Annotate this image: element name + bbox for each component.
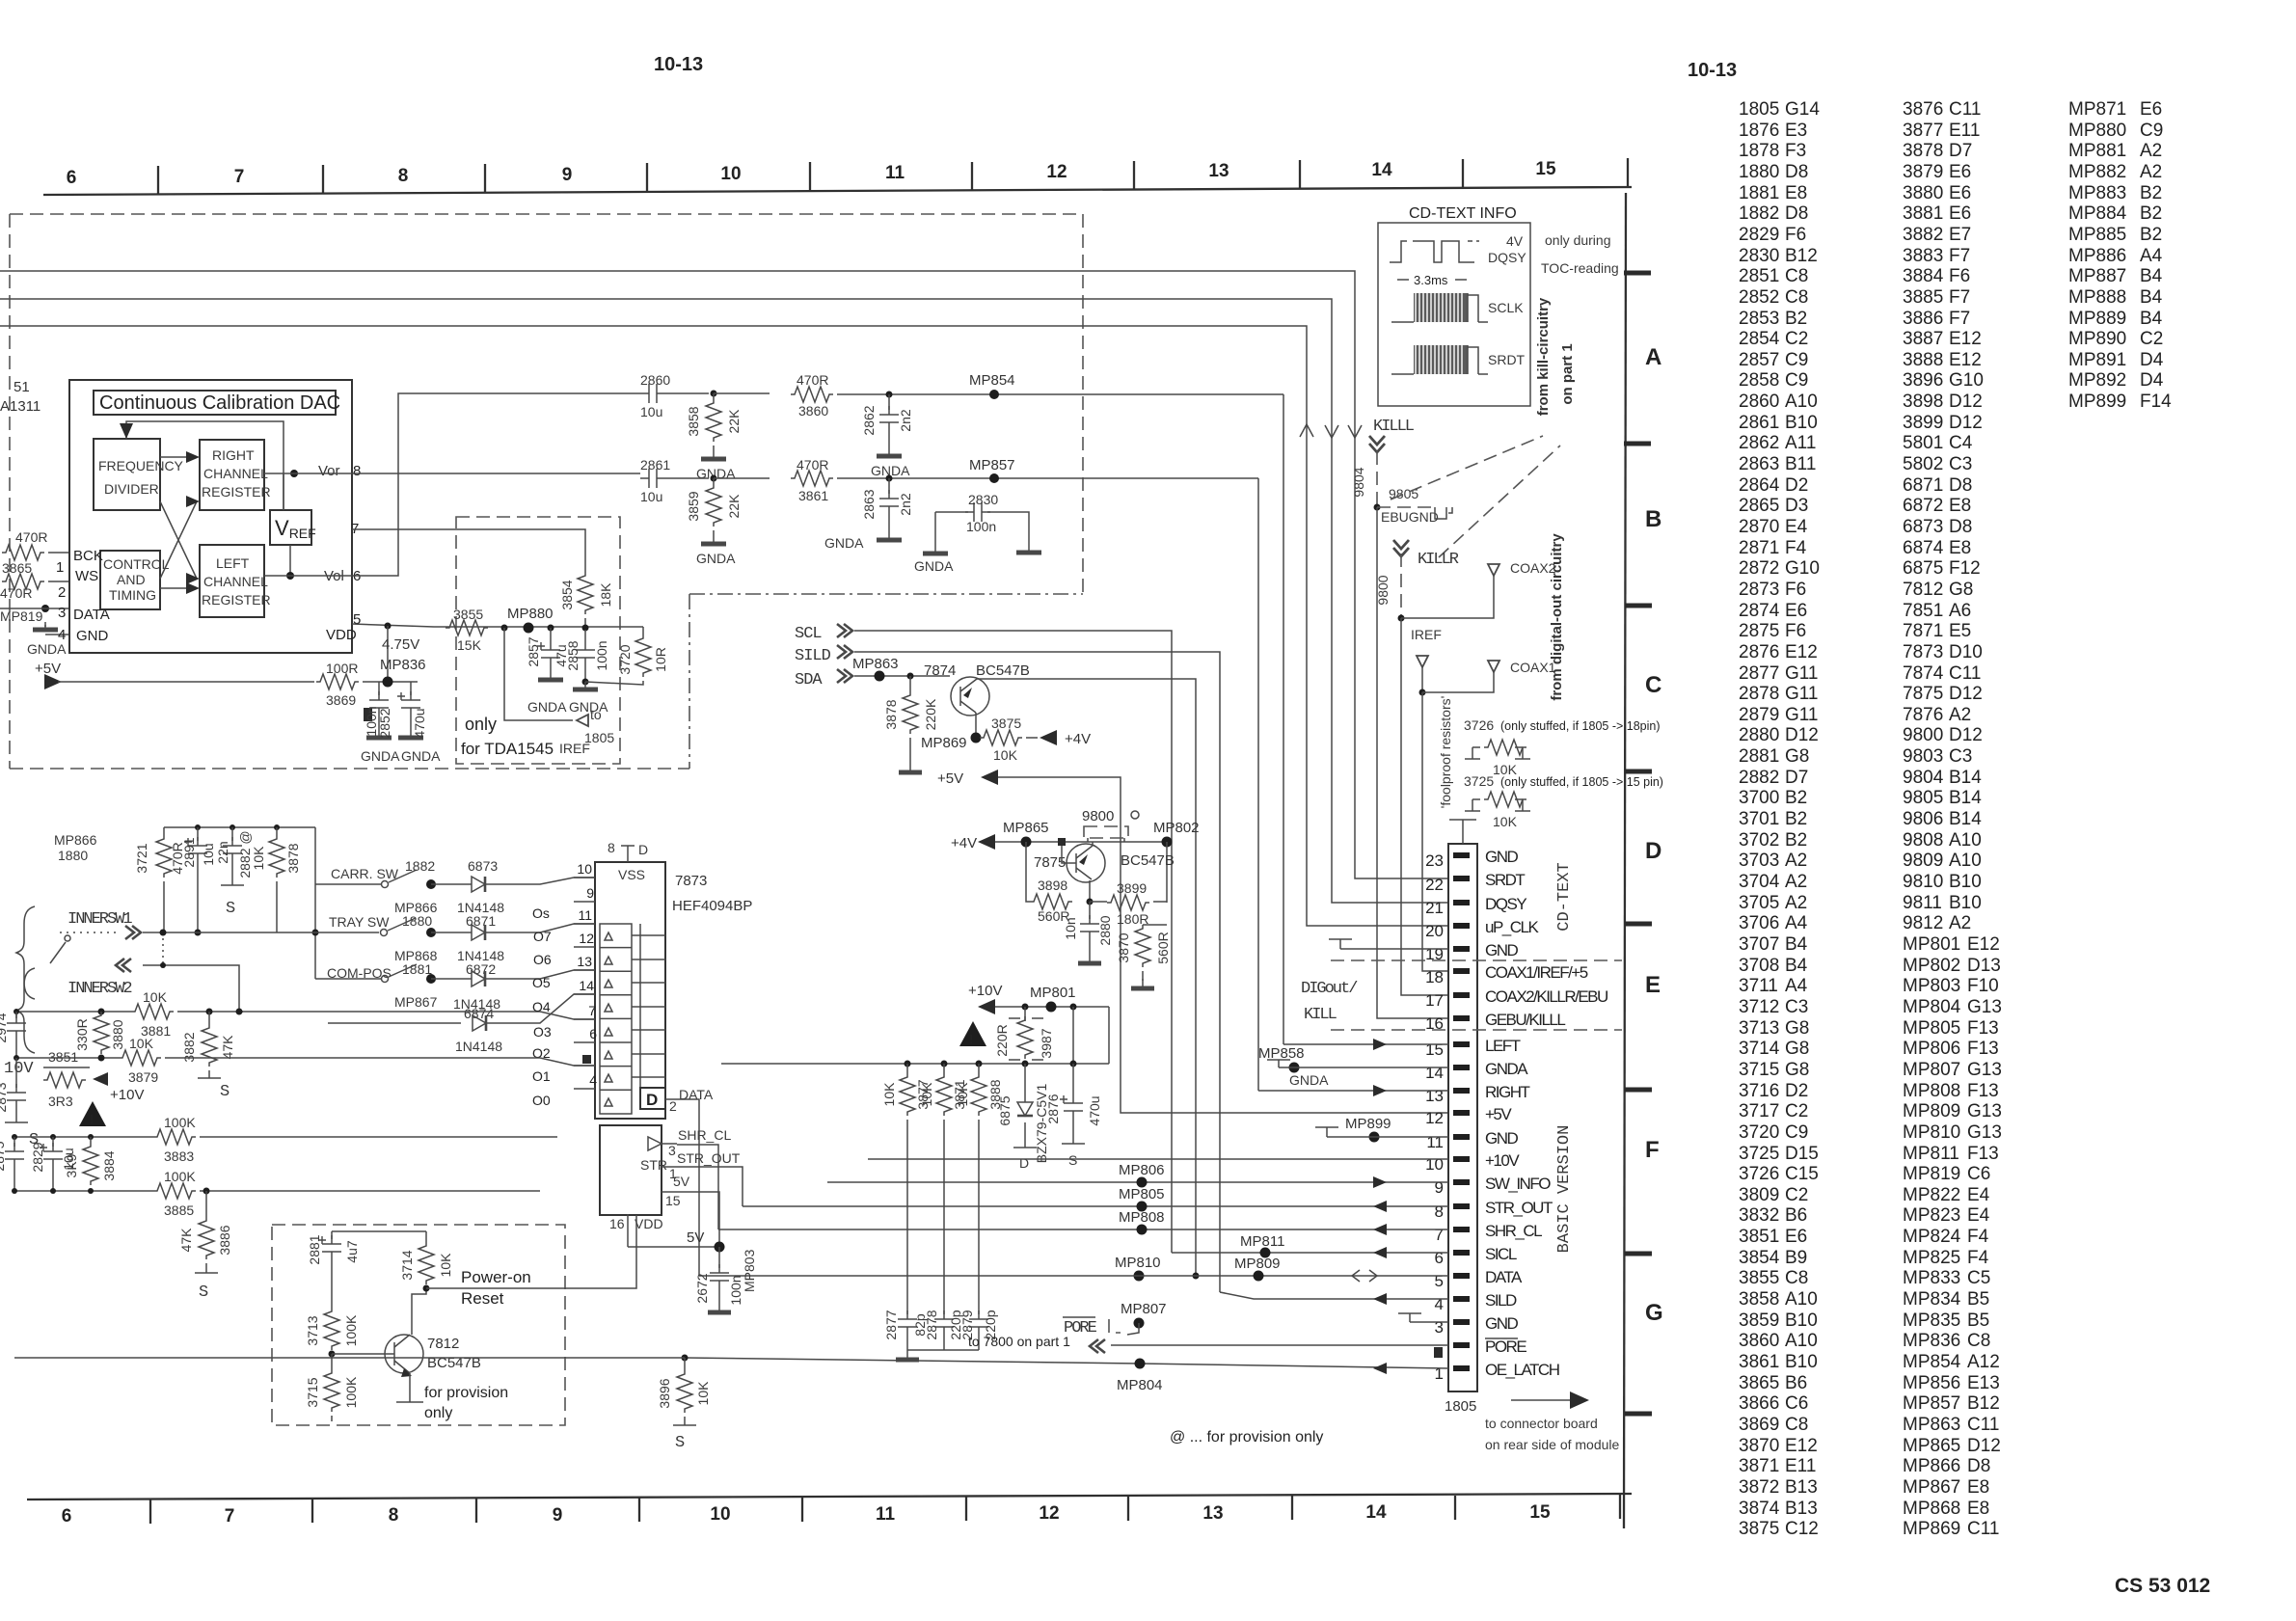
svg-text:9806: 9806 (1903, 809, 1943, 829)
svg-text:3987: 3987 (1039, 1028, 1054, 1058)
diode 6871 1N4148 (472, 925, 485, 940)
svg-text:5V: 5V (687, 1229, 704, 1246)
svg-text:F6: F6 (1949, 266, 1970, 286)
svg-text:2857: 2857 (526, 636, 541, 666)
svg-text:F7: F7 (1949, 287, 1970, 308)
svg-text:220R: 220R (994, 1024, 1010, 1056)
svg-text:9: 9 (586, 885, 594, 901)
svg-text:C11: C11 (1949, 663, 1981, 684)
svg-text:8: 8 (608, 840, 615, 855)
svg-text:9812: 9812 (1903, 913, 1943, 933)
emitter wire + ground (409, 1373, 411, 1402)
svg-text:2873: 2873 (0, 1082, 9, 1112)
svg-text:10K: 10K (695, 1381, 711, 1406)
svg-text:1882: 1882 (1739, 203, 1779, 224)
svg-text:3854: 3854 (559, 580, 575, 609)
svg-text:A2: A2 (1949, 705, 1971, 725)
svg-text:10K: 10K (993, 747, 1018, 763)
svg-text:A2: A2 (1785, 851, 1807, 871)
svg-text:D8: D8 (1949, 517, 1972, 537)
control and timing block (100, 551, 160, 609)
svg-text:MP886: MP886 (2068, 246, 2126, 266)
resistor 3865 470R (BCK) (2, 545, 44, 560)
svg-text:E11: E11 (1949, 121, 1980, 141)
svg-text:MP890: MP890 (2068, 329, 2126, 349)
SRDT burst (1391, 373, 1488, 375)
svg-text:A10: A10 (1785, 1289, 1818, 1310)
svg-text:3721: 3721 (134, 843, 149, 873)
svg-text:E8: E8 (1967, 1499, 1989, 1519)
svg-text:INNERSW1: INNERSW1 (68, 910, 132, 929)
svg-text:G13: G13 (1967, 997, 2002, 1017)
svg-text:S: S (199, 1283, 208, 1302)
resistor 470R (WS) (2, 574, 44, 589)
title box (94, 391, 336, 415)
svg-text:2830: 2830 (968, 492, 998, 507)
IC 7873 HEF4094BP (595, 862, 665, 1119)
svg-text:3865: 3865 (1739, 1373, 1779, 1393)
svg-text:C6: C6 (1785, 1393, 1808, 1414)
svg-text:MP804: MP804 (1903, 997, 1961, 1017)
svg-text:100K: 100K (164, 1115, 196, 1130)
svg-text:GNDA: GNDA (361, 748, 400, 764)
svg-text:3: 3 (1435, 1318, 1444, 1337)
svg-text:F6: F6 (1785, 621, 1806, 641)
svg-text:CARR. SW: CARR. SW (331, 866, 399, 881)
svg-text:470R: 470R (15, 529, 47, 545)
svg-text:S: S (1068, 1152, 1077, 1168)
svg-text:2878: 2878 (924, 1310, 939, 1339)
svg-text:SILD: SILD (795, 647, 831, 665)
resistor 3854 18K (578, 572, 593, 614)
wire VDD pin5 (352, 624, 643, 627)
wire DATA (0, 608, 69, 609)
svg-text:1805: 1805 (1739, 99, 1779, 120)
wire row2 down to connector RIGHT (1257, 478, 1259, 1091)
wire to COAX1 (1422, 672, 1494, 692)
svg-text:15: 15 (1425, 1040, 1444, 1059)
svg-text:2891: 2891 (181, 837, 197, 867)
svg-text:6873: 6873 (1903, 517, 1943, 537)
svg-text:B13: B13 (1785, 1477, 1818, 1498)
svg-text:INNERSW2: INNERSW2 (68, 980, 131, 998)
svg-text:3878: 3878 (1903, 141, 1943, 161)
resistor 3878 220K (909, 676, 911, 691)
svg-text:1805: 1805 (1445, 1398, 1476, 1415)
svg-text:3886: 3886 (1903, 309, 1943, 329)
svg-text:B10: B10 (1949, 872, 1982, 892)
svg-text:STR_OUT: STR_OUT (677, 1150, 741, 1166)
svg-text:2853: 2853 (1739, 309, 1779, 329)
svg-text:7873: 7873 (1903, 642, 1943, 662)
svg-text:2863: 2863 (861, 489, 877, 519)
svg-text:E12: E12 (1785, 642, 1818, 662)
svg-text:10u: 10u (640, 404, 662, 419)
svg-text:10K: 10K (143, 989, 168, 1005)
svg-text:2852: 2852 (377, 708, 392, 738)
svg-text:RIGHT: RIGHT (1485, 1083, 1530, 1101)
svg-text:10K: 10K (129, 1036, 154, 1051)
svg-text:2860: 2860 (640, 372, 670, 388)
svg-text:2877: 2877 (883, 1310, 899, 1339)
feedback wire + arrow into frequency divider (126, 421, 284, 510)
svg-text:G13: G13 (1967, 1122, 2002, 1143)
svg-text:10R: 10R (653, 647, 668, 672)
svg-text:B5: B5 (1967, 1289, 1989, 1310)
capacitor 2876 470u (1072, 1064, 1074, 1094)
ground GNDA pin4 (33, 622, 58, 630)
svg-text:C8: C8 (1967, 1331, 1990, 1351)
wire 5V pin15 to MP803 (675, 1192, 719, 1247)
svg-text:2873: 2873 (1739, 580, 1779, 600)
emitter to resistor node (1089, 880, 1091, 902)
svg-text:MP889: MP889 (2068, 309, 2126, 329)
svg-text:5801: 5801 (1903, 433, 1943, 453)
svg-text:GNDA: GNDA (569, 699, 608, 715)
svg-text:3898: 3898 (1038, 878, 1067, 893)
svg-text:12: 12 (1039, 1503, 1059, 1524)
capacitor 2974 (15, 1012, 17, 1018)
svg-text:C: C (1645, 672, 1661, 698)
svg-text:D7: D7 (1785, 768, 1808, 788)
svg-text:470u: 470u (412, 708, 427, 738)
svg-text:1N4148: 1N4148 (455, 1039, 502, 1054)
collector wire (412, 1288, 426, 1335)
svg-text:B2: B2 (2140, 225, 2162, 245)
svg-text:100n: 100n (594, 640, 609, 670)
svg-text:3875: 3875 (1739, 1519, 1779, 1539)
svg-text:DQSY: DQSY (1488, 250, 1526, 265)
svg-text:VDD: VDD (326, 627, 357, 643)
node MP836 (383, 677, 393, 688)
svg-text:14: 14 (579, 978, 594, 993)
latch cells (600, 924, 665, 1114)
svg-text:DQSY: DQSY (1485, 895, 1526, 913)
svg-text:6874: 6874 (1903, 538, 1944, 558)
svg-text:11: 11 (1426, 1133, 1444, 1151)
svg-text:!: ! (969, 1032, 973, 1046)
svg-text:10: 10 (577, 861, 592, 877)
svg-text:14: 14 (1425, 1064, 1444, 1082)
svg-text:C2: C2 (1785, 1101, 1808, 1121)
svg-text:KILLL: KILLL (1373, 418, 1415, 436)
svg-text:D8: D8 (1785, 203, 1808, 224)
svg-text:7: 7 (588, 1003, 596, 1018)
right channel register block (200, 440, 264, 510)
svg-text:2851: 2851 (1739, 266, 1779, 286)
svg-text:3855: 3855 (453, 607, 483, 622)
svg-text:2974: 2974 (0, 1013, 9, 1042)
svg-text:CD-TEXT INFO: CD-TEXT INFO (1409, 205, 1517, 222)
svg-text:2881: 2881 (307, 1234, 322, 1264)
right border (1624, 193, 1626, 1528)
svg-text:FREQUENCY: FREQUENCY (98, 458, 184, 473)
diode 6872 1N4148 (472, 971, 485, 986)
svg-text:3885: 3885 (164, 1202, 194, 1218)
dashed separator pins 19-16 (1331, 959, 1622, 961)
svg-text:B6: B6 (1785, 1373, 1807, 1393)
parts index table (1739, 99, 2172, 1539)
svg-text:2: 2 (669, 1098, 677, 1114)
svg-text:REGISTER: REGISTER (202, 592, 271, 608)
svg-text:MP835: MP835 (1903, 1310, 1960, 1331)
svg-text:3879: 3879 (1903, 162, 1943, 182)
svg-text:O7: O7 (533, 929, 552, 944)
svg-text:1880: 1880 (1739, 162, 1779, 182)
svg-text:3865: 3865 (2, 560, 32, 576)
svg-text:7812: 7812 (1903, 580, 1943, 600)
svg-text:3714: 3714 (399, 1250, 415, 1280)
svg-text:E8: E8 (1949, 538, 1971, 558)
svg-text:6872: 6872 (466, 961, 496, 977)
svg-text:STR: STR (640, 1157, 667, 1173)
svg-text:SILD: SILD (1485, 1291, 1517, 1310)
svg-text:MP867: MP867 (1903, 1477, 1960, 1498)
capacitor 2880 10n (1089, 902, 1091, 919)
svg-text:A10: A10 (1785, 392, 1818, 412)
svg-text:GND: GND (1485, 848, 1519, 866)
svg-text:E: E (1645, 972, 1661, 998)
svg-text:3702: 3702 (1739, 830, 1779, 851)
pin labels (1485, 848, 1607, 1379)
svg-text:2874: 2874 (1739, 601, 1780, 621)
node KILLR (1393, 540, 1409, 556)
svg-text:E4: E4 (1785, 517, 1808, 537)
svg-text:to 7800 on part 1: to 7800 on part 1 (968, 1334, 1070, 1349)
capacitor 2863 2n2 (888, 478, 890, 494)
svg-text:IREF: IREF (559, 741, 590, 756)
svg-text:8: 8 (398, 166, 409, 186)
svg-text:C9: C9 (1785, 350, 1808, 370)
resistor 3859 22K (706, 484, 721, 527)
svg-text:47K: 47K (178, 1228, 194, 1253)
svg-text:E7: E7 (1949, 225, 1971, 245)
svg-text:2865: 2865 (1739, 496, 1779, 516)
svg-text:D12: D12 (1949, 413, 1983, 433)
svg-text:MP854: MP854 (969, 372, 1015, 389)
svg-text:MP881: MP881 (2068, 141, 2126, 161)
svg-text:A12: A12 (1967, 1352, 2000, 1372)
svg-text:F13: F13 (1967, 1018, 1999, 1039)
dashed boundary from part 1 (10, 214, 1083, 769)
svg-text:7874: 7874 (924, 662, 956, 679)
transistor Q7812 BC547B (385, 1335, 423, 1373)
wire to COAX2 (1401, 576, 1494, 618)
svg-text:G8: G8 (1785, 1039, 1809, 1059)
svg-text:3703: 3703 (1739, 851, 1779, 871)
svg-text:6873: 6873 (468, 858, 498, 874)
svg-text:LEFT: LEFT (216, 555, 250, 571)
svg-text:O3: O3 (533, 1024, 552, 1040)
svg-text:E12: E12 (1949, 329, 1982, 349)
svg-text:12: 12 (1425, 1109, 1444, 1127)
svg-text:3886: 3886 (217, 1225, 232, 1255)
svg-text:13: 13 (1425, 1087, 1444, 1105)
resistor 3855 15K (446, 620, 488, 635)
svg-text:MP805: MP805 (1903, 1018, 1960, 1039)
svg-text:3: 3 (58, 605, 66, 621)
svg-text:+10V: +10V (110, 1087, 144, 1103)
svg-text:MP888: MP888 (2068, 287, 2126, 308)
node (886, 392, 893, 398)
resistor 3858 22K (706, 399, 721, 442)
svg-text:Reset: Reset (461, 1289, 504, 1308)
svg-text:@ ... for provision only: @ ... for provision only (1170, 1429, 1323, 1445)
svg-text:D4: D4 (2140, 350, 2164, 370)
svg-text:3875: 3875 (991, 716, 1021, 731)
svg-text:3861: 3861 (798, 488, 828, 503)
svg-text:3714: 3714 (1739, 1039, 1780, 1059)
capacitor 2877 82p (898, 1310, 917, 1336)
svg-text:+5V: +5V (1485, 1105, 1512, 1123)
svg-text:E8: E8 (1967, 1477, 1989, 1498)
dashed box only for TDA1545 (456, 517, 620, 764)
svg-text:3725: 3725 (1739, 1144, 1779, 1164)
svg-text:13: 13 (577, 954, 592, 969)
svg-text:A4: A4 (1785, 976, 1808, 996)
svg-text:SCL: SCL (795, 625, 822, 643)
svg-text:3858: 3858 (686, 406, 701, 436)
power-on reset dashed box (272, 1225, 565, 1425)
wire bus line 3 (0, 326, 1448, 926)
svg-text:MP811: MP811 (1903, 1144, 1959, 1164)
svg-text:MP880: MP880 (507, 606, 554, 622)
svg-text:D4: D4 (2140, 370, 2164, 391)
svg-text:B4: B4 (2140, 309, 2163, 329)
svg-text:MP809: MP809 (1903, 1101, 1960, 1121)
svg-text:3882: 3882 (1903, 225, 1943, 245)
svg-text:5V: 5V (673, 1174, 690, 1189)
svg-text:MP867: MP867 (394, 994, 438, 1010)
svg-text:C8: C8 (1785, 1415, 1808, 1435)
svg-text:3872: 3872 (1739, 1477, 1779, 1498)
svg-text:3879: 3879 (128, 1069, 158, 1085)
svg-text:2862: 2862 (861, 405, 877, 435)
vref block (270, 510, 311, 545)
svg-text:C15: C15 (1785, 1164, 1819, 1184)
svg-text:3899: 3899 (1117, 880, 1147, 896)
svg-text:BC547B: BC547B (976, 662, 1030, 679)
svg-text:3K9: 3K9 (64, 1153, 79, 1177)
capacitor 2861 10u (640, 469, 665, 488)
svg-text:MP819: MP819 (1903, 1164, 1960, 1184)
svg-text:3705: 3705 (1739, 893, 1779, 913)
svg-text:E6: E6 (1949, 162, 1971, 182)
svg-text:SW_INFO: SW_INFO (1485, 1175, 1551, 1193)
pin stubs left (574, 878, 595, 1089)
crossing wires control/registers (160, 457, 197, 588)
svg-text:MP803: MP803 (1903, 976, 1960, 996)
svg-text:DATA: DATA (73, 607, 110, 623)
svg-text:10-13: 10-13 (1688, 60, 1737, 81)
svg-text:MP833: MP833 (1903, 1268, 1960, 1288)
svg-text:S: S (675, 1434, 685, 1452)
svg-text:C11: C11 (1967, 1415, 1999, 1435)
svg-text:2860: 2860 (1739, 392, 1779, 412)
svg-text:10K: 10K (881, 1082, 897, 1107)
svg-text:F13: F13 (1967, 1144, 1999, 1164)
svg-text:on part 1: on part 1 (1559, 343, 1576, 404)
svg-text:3832: 3832 (1739, 1205, 1779, 1226)
svg-text:(only stuffed, if 1805 -> 18pi: (only stuffed, if 1805 -> 18pin) (1500, 719, 1661, 733)
svg-text:MP836: MP836 (380, 657, 426, 673)
resistor 3713 100K (324, 1308, 339, 1350)
svg-text:13: 13 (1208, 161, 1229, 181)
svg-text:2880: 2880 (1097, 915, 1113, 945)
svg-text:B10: B10 (1785, 1310, 1818, 1331)
wire WS (48, 581, 69, 582)
svg-text:3706: 3706 (1739, 913, 1779, 933)
svg-text:4: 4 (1435, 1295, 1444, 1313)
svg-text:2858: 2858 (1739, 370, 1779, 391)
svg-text:3704: 3704 (1739, 872, 1780, 892)
svg-text:3881: 3881 (1903, 203, 1943, 224)
svg-text:4.75V: 4.75V (382, 636, 419, 653)
D output box (640, 1088, 665, 1109)
svg-text:11: 11 (578, 907, 592, 923)
resistor 3860 470R (791, 387, 833, 402)
svg-text:4V: 4V (1506, 233, 1524, 249)
svg-text:9800: 9800 (1375, 575, 1391, 605)
svg-text:3883: 3883 (164, 1148, 194, 1164)
svg-text:A: A (1645, 344, 1661, 370)
svg-text:A2: A2 (1949, 913, 1971, 933)
svg-text:C8: C8 (1785, 1268, 1808, 1288)
svg-text:B9: B9 (1785, 1248, 1807, 1268)
capacitor 2830 100n (935, 512, 1029, 546)
svg-text:E5: E5 (1949, 621, 1971, 641)
svg-text:G13: G13 (1967, 1101, 2002, 1121)
warning triangle (959, 1021, 986, 1046)
svg-text:330R: 330R (74, 1018, 90, 1050)
wire to HEF pin7 (239, 1012, 595, 1019)
resistor 3870 560R (1143, 924, 1167, 926)
svg-text:MP807: MP807 (1903, 1060, 1960, 1080)
wire SCL to SICL (854, 631, 1172, 1253)
svg-text:SRDT: SRDT (1485, 871, 1525, 889)
svg-text:F14: F14 (2140, 392, 2172, 412)
wire SDA collector to DATA pin (977, 679, 1196, 1276)
svg-text:3870: 3870 (1116, 932, 1131, 962)
svg-text:C4: C4 (1949, 433, 1973, 453)
svg-text:11: 11 (885, 163, 905, 183)
svg-text:2830: 2830 (1739, 246, 1779, 266)
svg-text:D8: D8 (1785, 162, 1808, 182)
svg-text:F4: F4 (1785, 538, 1807, 558)
wire Vor to output filter row2 (264, 473, 640, 474)
svg-text:6871: 6871 (466, 913, 496, 929)
svg-text:4: 4 (58, 627, 66, 643)
resistor 3880 330R (94, 1012, 109, 1054)
svg-text:5: 5 (1435, 1272, 1444, 1290)
svg-text:3725: 3725 (1464, 773, 1494, 789)
svg-text:9805: 9805 (1903, 788, 1943, 808)
svg-text:6875: 6875 (1903, 558, 1943, 579)
svg-text:3855: 3855 (1739, 1268, 1779, 1288)
svg-text:MP866: MP866 (1903, 1456, 1960, 1476)
wire STR_OUT pin8 (743, 1205, 1448, 1207)
capacitor 2857 47u (550, 628, 552, 641)
resistor 3869 100R (316, 674, 359, 689)
connector 1805 body (1448, 844, 1477, 1391)
svg-text:EBUGND: EBUGND (1381, 509, 1439, 525)
svg-text:3701: 3701 (1739, 809, 1779, 829)
svg-text:A4: A4 (2140, 246, 2163, 266)
svg-text:2672: 2672 (694, 1273, 710, 1303)
svg-text:3859: 3859 (686, 491, 701, 521)
svg-text:3851: 3851 (1739, 1227, 1779, 1247)
svg-text:C8: C8 (1785, 266, 1808, 286)
